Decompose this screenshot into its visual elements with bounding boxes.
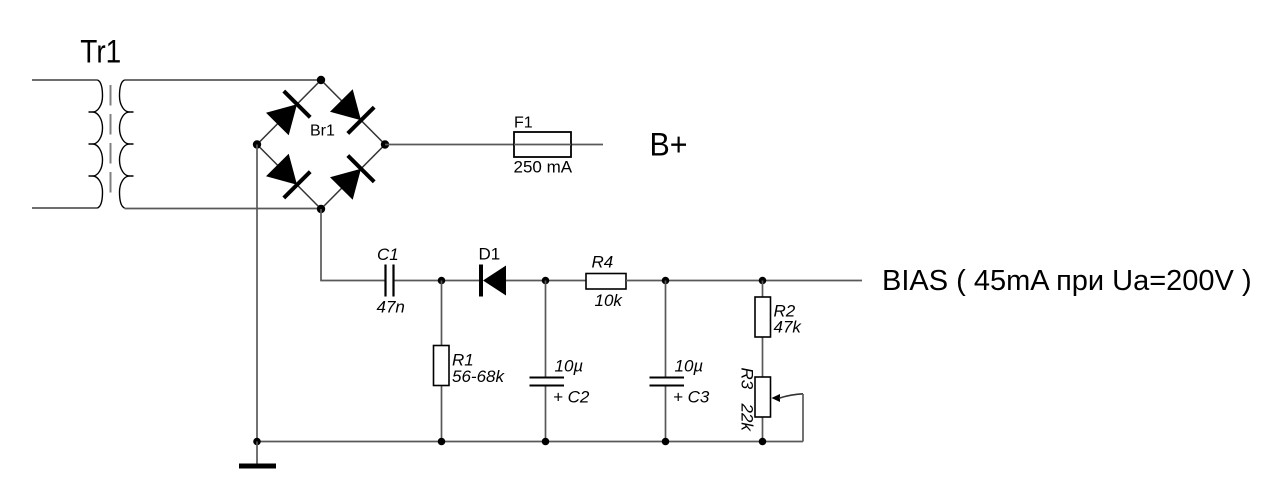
svg-text:B+: B+ [650, 127, 688, 163]
svg-text:+ C2: + C2 [553, 387, 590, 406]
svg-text:56-68k: 56-68k [452, 367, 505, 386]
ground [239, 442, 276, 469]
svg-text:22k: 22k [738, 403, 757, 433]
junction ground/R3 [759, 438, 767, 446]
svg-text:C1: C1 [377, 245, 399, 264]
wire C1 to D1 [395, 280, 480, 282]
svg-text:47n: 47n [377, 298, 405, 317]
svg-text:BIAS ( 45mA при Ua=200V ): BIAS ( 45mA при Ua=200V ) [882, 265, 1252, 297]
junction node D1/C2 [542, 277, 550, 285]
wire bridge left node down to ground rail [256, 145, 258, 442]
svg-text:D1: D1 [479, 245, 501, 264]
transformer Tr1 core [110, 85, 112, 195]
svg-text:R3: R3 [738, 368, 757, 390]
junction ground/C3 [662, 438, 670, 446]
wire R1 branch [441, 281, 443, 442]
capacitor C2 [530, 378, 565, 386]
svg-text:R4: R4 [592, 252, 614, 271]
junction node R4/C3 [662, 277, 670, 285]
diode Br1 bottom-left [266, 154, 310, 198]
junction bridge bottom node [317, 205, 325, 213]
resistor R1 [434, 346, 450, 386]
svg-text:10µ: 10µ [555, 356, 584, 375]
svg-text:47k: 47k [774, 318, 803, 337]
potentiometer R3 [755, 377, 771, 417]
resistor R2 [755, 297, 771, 337]
svg-text:+ C3: + C3 [673, 387, 710, 406]
wire secondary bottom to bridge bottom node [125, 208, 322, 210]
resistor R4 [586, 274, 626, 290]
fuse F1 [514, 132, 571, 157]
wire ground rail [257, 441, 803, 443]
capacitor C1 [386, 265, 394, 297]
wire bridge bottom node down and right to C1 [321, 209, 385, 281]
junction ground/C2 [542, 438, 550, 446]
potentiometer R3 wiper arrow [772, 394, 804, 402]
capacitor C3 [650, 378, 685, 386]
wire bridge edge left-top [257, 80, 321, 145]
wire bridge edge bottom-right [321, 145, 385, 210]
junction bridge top node [317, 76, 325, 84]
bridge rectifier Br1 [257, 80, 385, 209]
wire R4 to BIAS [626, 280, 862, 282]
svg-text:10µ: 10µ [675, 356, 704, 375]
diode Br1 top-left [266, 91, 310, 135]
wire primary bottom lead [32, 207, 98, 209]
junction node R2 tap [759, 277, 767, 285]
wire R3 wiper return [802, 394, 804, 442]
transformer Tr1 [89, 80, 134, 208]
wire secondary top to bridge top node [125, 79, 322, 81]
wire bridge edge top-right [321, 80, 385, 145]
wire C2 branch [545, 281, 547, 442]
junction ground/bridge-left [253, 438, 261, 446]
junction bridge right node [381, 140, 389, 148]
svg-text:10k: 10k [595, 291, 624, 310]
junction bridge left node [253, 140, 261, 148]
svg-text:F1: F1 [514, 114, 533, 131]
wire bridge right node to B+ [385, 144, 603, 146]
diode Br1 top-right [330, 89, 374, 133]
svg-text:Tr1: Tr1 [80, 35, 121, 70]
diode D1 [481, 265, 506, 297]
junction ground/R1 [438, 438, 446, 446]
wire D1 to R4 [506, 280, 586, 282]
wire primary top lead [32, 79, 98, 81]
wire bridge edge left-bottom [257, 145, 321, 210]
wire C3 branch [665, 281, 667, 442]
svg-text:Br1: Br1 [310, 123, 335, 140]
wire R2/R3 branch [762, 281, 764, 442]
svg-text:250 mA: 250 mA [514, 158, 573, 177]
diode Br1 bottom-right [330, 156, 374, 200]
junction node C1/D1/R1 [438, 277, 446, 285]
